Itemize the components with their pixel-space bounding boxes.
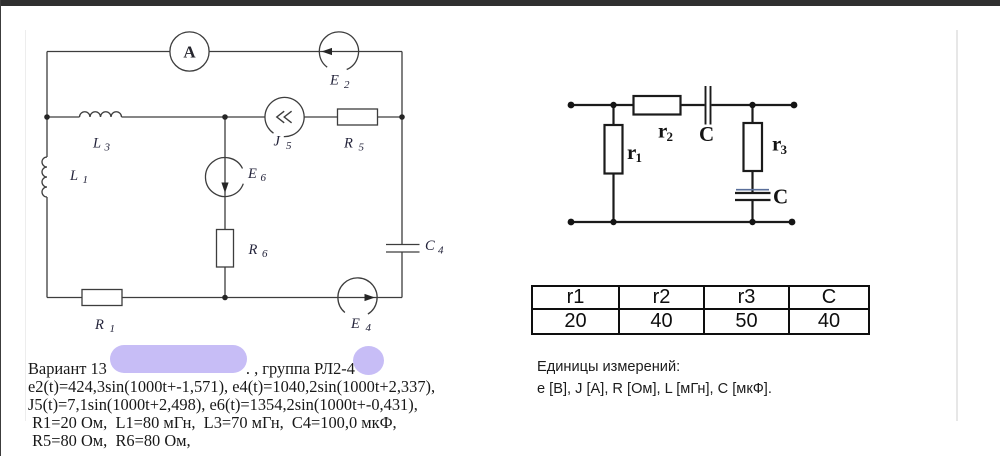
- svg-text:C: C: [699, 122, 714, 146]
- wire through E6: [224, 158, 226, 185]
- wire right vertical lower: [401, 252, 403, 298]
- current source J5: [265, 97, 304, 136]
- svg-text:6: 6: [262, 248, 268, 260]
- wire bottom left: [47, 297, 82, 299]
- table r1 r2 r3 C: [531, 285, 870, 335]
- svg-text:C: C: [773, 185, 788, 209]
- inductor L3: [80, 112, 122, 117]
- ammeter A: [170, 32, 209, 71]
- terminal dot top right: [791, 102, 798, 109]
- svg-text:R: R: [94, 317, 104, 333]
- wire E6 to R6: [224, 191, 226, 230]
- capacitor C4: [386, 245, 420, 253]
- left window edge line: [0, 0, 1, 456]
- terminal dot top left: [568, 102, 575, 109]
- svg-text:5: 5: [286, 140, 292, 152]
- wire r1 branch lower: [612, 174, 614, 223]
- svg-text:E: E: [329, 73, 339, 89]
- wire top left horizontal: [47, 51, 170, 53]
- svg-text:E: E: [247, 166, 257, 182]
- wire bottom center: [122, 297, 402, 299]
- wire R6 to bottom: [224, 267, 226, 298]
- right units text: [537, 359, 680, 375]
- svg-text:5: 5: [359, 142, 365, 154]
- wire C lower to bottom: [751, 200, 753, 222]
- svg-text:4: 4: [366, 322, 372, 334]
- wire r3 branch upper: [751, 105, 753, 123]
- svg-text:4: 4: [438, 245, 444, 257]
- node dot right mid: [399, 114, 405, 120]
- wire bottom row (right circuit): [571, 221, 792, 223]
- emf source E4: [338, 278, 377, 314]
- svg-text:1: 1: [110, 323, 116, 335]
- svg-text:L: L: [69, 168, 78, 184]
- emf source E2: [319, 32, 358, 70]
- resistor R5: [338, 109, 378, 125]
- svg-text:J: J: [274, 134, 281, 150]
- terminal dot bottom left: [568, 219, 575, 226]
- resistor R1: [82, 290, 122, 306]
- terminal dot bottom right: [789, 219, 796, 226]
- node dot r1 top: [610, 102, 616, 108]
- capacitor C lower: [735, 193, 771, 200]
- svg-text:6: 6: [261, 172, 267, 184]
- svg-text:R: R: [343, 136, 353, 152]
- wire R5 to right node: [378, 116, 403, 118]
- emf source E6: [205, 158, 243, 197]
- svg-text:1: 1: [636, 150, 643, 165]
- arrow of E4 (right): [365, 294, 376, 301]
- wire J5 to R5: [304, 116, 337, 118]
- capacitor C series: [706, 86, 711, 125]
- arrow of E2 (left): [322, 48, 333, 55]
- node dot bottom center: [222, 295, 228, 301]
- wire left vertical upper: [46, 52, 48, 158]
- svg-text:2: 2: [667, 129, 674, 144]
- wire right vertical upper: [401, 52, 403, 245]
- svg-text:3: 3: [781, 142, 788, 157]
- svg-text:C: C: [425, 238, 435, 254]
- node dot left mid: [44, 114, 50, 120]
- faint scan edge left: [25, 30, 26, 421]
- svg-text:1: 1: [83, 174, 89, 186]
- svg-text:E: E: [350, 316, 360, 332]
- svg-text:R: R: [248, 242, 258, 258]
- wire top right horizontal: [209, 51, 402, 53]
- node dot r3 bottom: [749, 219, 755, 225]
- wire r1 branch upper: [612, 105, 614, 125]
- wire left vertical lower: [46, 197, 48, 298]
- resistor r1: [605, 125, 623, 174]
- resistor r3: [744, 123, 763, 171]
- node dot center mid: [222, 114, 228, 120]
- wire r2 to C: [681, 104, 705, 106]
- wire C to right: [712, 104, 795, 106]
- left text block: [28, 359, 435, 449]
- svg-text:2: 2: [344, 79, 350, 91]
- arrow of E6 (down): [221, 183, 228, 194]
- wire top row left (right circuit): [571, 104, 634, 106]
- purple redaction blobs: [110, 345, 247, 373]
- faint scan edge right: [956, 30, 958, 421]
- resistor r2: [634, 96, 681, 115]
- top dark bar: [0, 0, 1000, 6]
- wire mid row center: [122, 116, 265, 118]
- inductor L1: [42, 157, 47, 197]
- resistor R6: [217, 230, 234, 268]
- wire mid row left: [47, 116, 80, 118]
- node dot r3 top: [749, 102, 755, 108]
- wire r3 to C lower: [751, 171, 753, 193]
- svg-text:3: 3: [104, 142, 111, 154]
- node dot r1 bottom: [610, 219, 616, 225]
- svg-text:A: A: [183, 43, 196, 62]
- svg-text:L: L: [92, 136, 101, 152]
- wire center vertical upper: [224, 117, 226, 158]
